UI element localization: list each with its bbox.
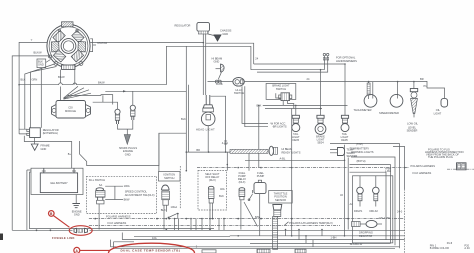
ignition switch contacts [168, 213, 179, 219]
svg-text:-BR LIGHTS: -BR LIGHTS [272, 125, 287, 129]
self shut off relay box [198, 171, 227, 211]
svg-text:(BOTH): (BOTH) [357, 159, 366, 163]
svg-text:BK/W: BK/W [98, 80, 105, 84]
svg-text:BLK: BLK [181, 117, 186, 121]
bottom right risers [393, 147, 405, 253]
brake light switch [266, 84, 296, 109]
speedometer lamp lead [397, 82, 399, 99]
wire hi-beam drop [222, 128, 228, 152]
ignition switch label box [159, 172, 181, 182]
fuel pump relay [239, 188, 245, 230]
low oil lamp [407, 82, 418, 126]
inline connector on beam wire [215, 80, 222, 86]
speedometer [379, 94, 403, 115]
label spark plugs engine gnd [119, 146, 137, 157]
warning light wire loops [330, 144, 400, 249]
svg-text:SENDER: SENDER [407, 129, 418, 133]
svg-text:SWITCH: SWITCH [164, 176, 174, 180]
svg-text:HEAD LIGHT: HEAD LIGHT [196, 127, 215, 131]
oil light [424, 81, 448, 115]
battery negative twin leads [27, 170, 31, 230]
harness risers mid bottom [174, 218, 225, 231]
kill switch box [87, 176, 157, 213]
hi beam ready lights connector [269, 146, 277, 155]
regulator (main) [175, 22, 210, 34]
harness boundary left upper (dash-dot) [89, 218, 405, 220]
svg-text:FUJI HARNESS: FUJI HARNESS [108, 221, 127, 225]
warning lamp DRLP1 [357, 176, 364, 207]
svg-text:DRLP1: DRLP1 [354, 209, 363, 213]
wire A-BL [245, 157, 345, 162]
hi beam gnd [212, 56, 225, 79]
bottom connector strip 2 [295, 249, 306, 253]
engine ground (battery) [72, 195, 82, 217]
speed control adjustment switch label [105, 184, 154, 201]
wire headlight down to harness bus [186, 126, 231, 153]
battery [31, 168, 83, 194]
stator / magneto assembly [47, 22, 90, 70]
hi-lo switch lower leads [242, 86, 268, 127]
svg-text:BKW: BKW [124, 198, 130, 202]
main vertical feed BLK [181, 46, 189, 171]
hi beam ready lights harness braid [230, 149, 268, 153]
frame ground [31, 138, 50, 151]
handwarmer feed wires [257, 56, 328, 72]
harness boundary left lower (dash-dot) [89, 224, 340, 226]
bottom bus y228.6 [29, 228, 214, 230]
stator label bracket [90, 39, 107, 52]
tps pointer note [284, 221, 333, 226]
svg-text:A-LIB: A-LIB [216, 82, 223, 86]
dropping resistor [350, 220, 382, 246]
svg-text:POLARIS HARNESS: POLARIS HARNESS [411, 164, 436, 168]
CDI module [52, 101, 91, 119]
svg-text:REGULATOR: REGULATOR [175, 24, 191, 28]
tail light bulb left [292, 105, 300, 141]
svg-text:SPARK PLUGS: SPARK PLUGS [119, 146, 137, 150]
chassis ground [208, 29, 232, 42]
legend FUJI [430, 241, 470, 250]
svg-text:READY LIGHTS: READY LIGHTS [282, 150, 301, 154]
svg-text:B WIRE COLOR: B WIRE COLOR [430, 246, 449, 250]
svg-text:IGNITION: IGNITION [164, 173, 176, 177]
svg-text:SE04: SE04 [317, 140, 324, 144]
handwarmer option pins [323, 53, 357, 63]
wire top bus to tail lights (upper) [166, 43, 258, 84]
temp warning sender [330, 148, 357, 159]
svg-text:40A: 40A [220, 187, 225, 191]
ignition key switch [161, 185, 178, 230]
bottom connector strip 1 [257, 249, 270, 253]
svg-text:BK/W: BK/W [58, 75, 65, 79]
bottom bus y243.4 [111, 237, 391, 249]
fusible link ellipse [69, 226, 92, 236]
polaris harness label left [106, 214, 131, 225]
throttle position sensor label [269, 191, 293, 204]
main gauge bus wire y81 [244, 77, 427, 82]
svg-text:SWITCH: SWITCH [234, 91, 244, 95]
svg-text:PU: PU [424, 84, 428, 88]
spark plug 2 [130, 105, 135, 120]
svg-text:BLK: BLK [21, 78, 26, 82]
svg-text:BLK/BR-W: BLK/BR-W [350, 242, 363, 246]
engine ground arrow [118, 120, 133, 144]
ignition switch dashed edge [179, 166, 181, 209]
edge mark left [0, 234, 3, 241]
svg-text:GND: GND [214, 60, 220, 64]
callout leader B [53, 216, 69, 228]
brake light bulb center [315, 70, 326, 145]
svg-text:DE05: DE05 [293, 138, 300, 142]
harness risers right bottom [285, 229, 323, 247]
svg-text:12V-1.3W: 12V-1.3W [379, 216, 391, 220]
svg-text:BR: BR [196, 148, 200, 152]
tachometer [354, 94, 377, 111]
lamp labels [354, 209, 390, 220]
throttle position sensor [273, 205, 282, 250]
hi beam ready lights label [282, 147, 301, 154]
low oil level sender label [407, 126, 418, 133]
svg-text:SENDER: SENDER [347, 154, 358, 158]
wire ignition feed drop [158, 133, 160, 171]
hi-lo beam switch [208, 78, 245, 96]
wire left feed down from brake area [258, 105, 260, 167]
svg-text:B+: B+ [68, 152, 72, 156]
svg-text:DRLK2: DRLK2 [370, 209, 379, 213]
callout circle B [49, 211, 55, 217]
fuel pump relay label [238, 171, 247, 184]
bottom bus y230.3 with fusible link gap [12, 229, 404, 232]
svg-text:4-1/4: 4-1/4 [222, 141, 228, 145]
taillight feed wires [257, 104, 348, 110]
svg-text:L-BH: L-BH [385, 169, 391, 173]
stator leads to regulator (external) [21, 64, 57, 129]
wire hi-lo to bus drop [211, 96, 226, 128]
bottom connector strip 3 [202, 250, 216, 253]
svg-text:FUJI HARNESS: FUJI HARNESS [413, 171, 432, 175]
svg-text:FUJI: FUJI [447, 241, 453, 245]
svg-text:100A: 100A [124, 184, 130, 188]
wire CDI to spark plug 1 [93, 95, 118, 109]
svg-text:ADJUSTMENT SW.(DLX): ADJUSTMENT SW.(DLX) [125, 193, 155, 197]
svg-text:SPEEDOMETER: SPEEDOMETER [379, 111, 399, 115]
svg-text:GND: GND [74, 213, 80, 217]
harness boundary right (dash-dot) [197, 167, 474, 169]
engine box wire run [80, 133, 187, 165]
polaris to fuji note [425, 147, 464, 159]
stator lead down to CDI [58, 70, 75, 101]
svg-text:POLARIS HARNESS: POLARIS HARNESS [106, 214, 131, 218]
polaris harness label right [411, 164, 436, 175]
bottom bus y239.6 [122, 233, 404, 240]
wire relay feed [227, 152, 250, 171]
svg-text:GND: GND [41, 147, 47, 151]
svg-text:TACHOMETER: TACHOMETER [354, 108, 372, 112]
svg-text:PUMP: PUMP [257, 174, 265, 178]
wire bus y84.7 to ignition feed [18, 80, 166, 85]
harness interconnect plug [457, 163, 467, 170]
headlight bulb [196, 95, 215, 131]
svg-text:MODULE: MODULE [65, 109, 76, 113]
svg-text:WARNING LIGHTS: WARNING LIGHTS [351, 150, 374, 154]
svg-text:BLK/W: BLK/W [34, 51, 43, 55]
svg-text:ENGINE: ENGINE [123, 149, 133, 153]
inline connector box BLK W GND [37, 59, 51, 68]
fusible link connectors [74, 228, 88, 232]
svg-text:LIGHT: LIGHT [434, 111, 442, 115]
bottom bus y235.8 [230, 235, 405, 237]
self shut off relay [208, 186, 224, 229]
wire regulator to headlight (pair) [203, 34, 205, 95]
svg-text:KILL SWITCH: KILL SWITCH [89, 178, 105, 182]
wire tail bus riser [291, 109, 293, 236]
svg-text:GEL BATTERY: GEL BATTERY [50, 181, 68, 185]
svg-text:24-0: 24-0 [397, 209, 403, 213]
fuel pump label [257, 171, 265, 178]
wire battery charge loop [24, 136, 71, 168]
svg-text:GND.: GND. [125, 153, 132, 157]
svg-text:(TOP): (TOP) [356, 142, 363, 146]
svg-text:GRN: GRN [32, 78, 38, 82]
wire CDI to spark plug 2 [132, 91, 134, 105]
svg-text:10GA: 10GA [171, 205, 178, 209]
svg-text:POLARIS 1/8 HARNESS TEMP(DLX): POLARIS 1/8 HARNESS TEMP(DLX) [289, 221, 333, 225]
kill switch [96, 183, 105, 230]
fuel pump [244, 180, 266, 236]
top bus to tail lights [251, 63, 346, 70]
svg-text:DUAL CASE TEMP SENSOR (TB): DUAL CASE TEMP SENSOR (TB) [121, 249, 181, 253]
tail light bulb right [341, 64, 349, 142]
svg-text:(DLX): (DLX) [239, 180, 246, 184]
svg-text:6A: 6A [99, 183, 102, 187]
warning lights inner box [353, 176, 393, 243]
regulator external [27, 128, 59, 138]
callout circle A [74, 247, 80, 253]
callout leader A [80, 249, 110, 251]
bottom bus y246.8 [111, 247, 400, 249]
svg-text:BLK: BLK [161, 208, 166, 212]
svg-text:Y: Y [31, 38, 33, 42]
svg-text:THE POLARIS PLUG: THE POLARIS PLUG [428, 155, 453, 159]
svg-text:1-BH: 1-BH [331, 236, 337, 240]
svg-text:SENSOR: SENSOR [275, 198, 286, 202]
svg-text:BLK: BLK [219, 194, 224, 198]
wire stator to regulator top bus [90, 42, 204, 44]
svg-text:GND: GND [38, 63, 44, 67]
tachometer lamp leads [367, 82, 373, 99]
right risers 32 / A2 [340, 145, 353, 236]
spark plug 1 [115, 109, 120, 124]
svg-text:A-BL: A-BL [280, 157, 286, 161]
svg-text:FUSIBLE LINK: FUSIBLE LINK [52, 236, 75, 240]
svg-text:GND: GND [222, 32, 228, 36]
svg-text:A 4C: A 4C [464, 246, 470, 250]
temp sensor callout ellipse [109, 243, 195, 253]
svg-text:SWITCH: SWITCH [276, 87, 286, 91]
CDI lead fan [64, 86, 92, 99]
wire BLK/W stator lower left [12, 51, 48, 231]
svg-text:(DLX): (DLX) [209, 178, 216, 182]
svg-text:TEMP/BATTERY: TEMP/BATTERY [350, 146, 370, 150]
warning lamp DRLK2 [373, 176, 380, 207]
wire Y stator to left bus [19, 38, 47, 134]
svg-text:LOW OIL: LOW OIL [407, 121, 418, 125]
svg-text:FOR OPTIONAL: FOR OPTIONAL [336, 55, 356, 59]
fuel pump relay contact [248, 190, 252, 201]
label W FOR ACC [270, 121, 287, 128]
wire y95.4 over CDI to main vertical [67, 90, 186, 104]
svg-text:BR: BR [420, 77, 424, 81]
temp battery warning lights labels [350, 142, 374, 163]
svg-text:(EXTERNAL): (EXTERNAL) [43, 131, 59, 135]
svg-text:HANDWARMERS: HANDWARMERS [336, 59, 357, 63]
svg-text:DE05: DE05 [341, 138, 348, 142]
